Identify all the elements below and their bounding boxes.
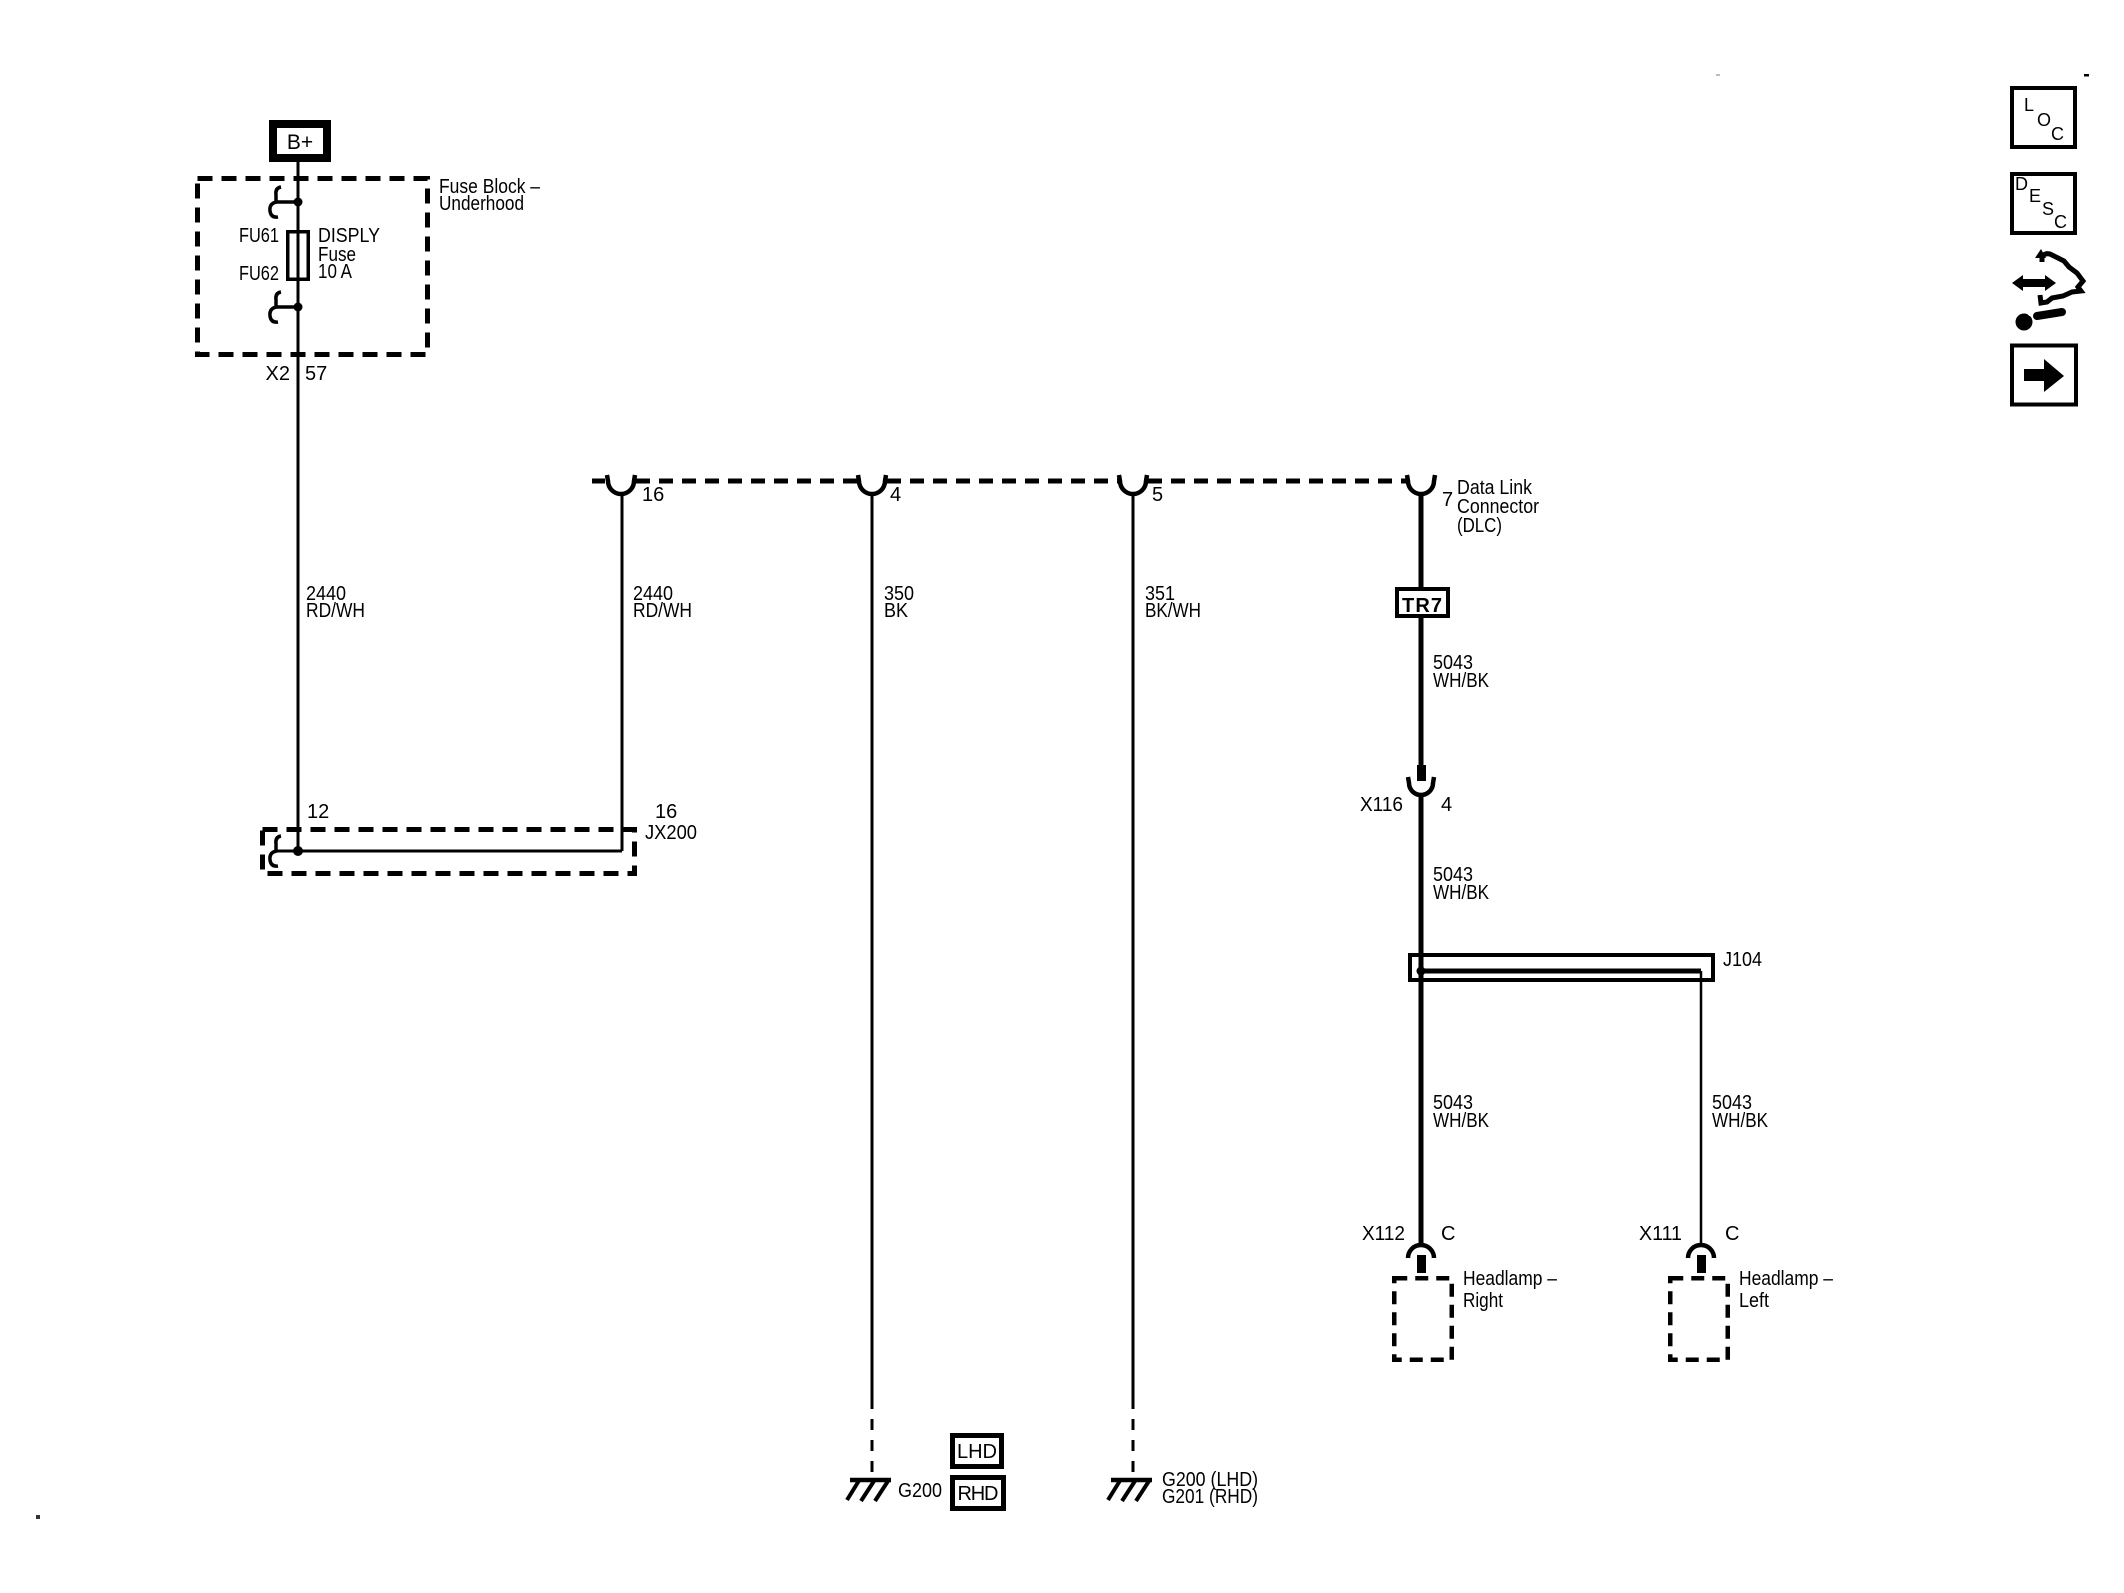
svg-text:4: 4: [890, 484, 901, 506]
svg-text:JX200: JX200: [645, 822, 697, 844]
svg-text:RHD: RHD: [958, 1483, 999, 1505]
svg-text:FU62: FU62: [239, 263, 279, 285]
svg-text:X111: X111: [1639, 1223, 1682, 1245]
svg-text:5: 5: [1152, 484, 1163, 506]
svg-text:X116: X116: [1360, 794, 1403, 816]
svg-text:C: C: [2054, 212, 2067, 232]
svg-text:D: D: [2015, 174, 2028, 194]
svg-text:Headlamp –: Headlamp –: [1739, 1268, 1834, 1290]
svg-text:C: C: [1725, 1223, 1739, 1245]
svg-text:E: E: [2029, 186, 2041, 206]
svg-text:Right: Right: [1463, 1290, 1503, 1312]
svg-text:16: 16: [655, 801, 677, 823]
svg-text:Underhood: Underhood: [439, 193, 524, 215]
svg-text:16: 16: [642, 484, 664, 506]
svg-text:10 A: 10 A: [318, 261, 353, 283]
svg-text:WH/BK: WH/BK: [1433, 882, 1490, 904]
svg-text:B+: B+: [287, 131, 313, 154]
svg-text:G201 (RHD): G201 (RHD): [1162, 1486, 1258, 1508]
svg-text:S: S: [2042, 199, 2054, 219]
svg-text:4: 4: [1441, 794, 1452, 816]
svg-text:FU61: FU61: [239, 225, 279, 247]
svg-text:BK/WH: BK/WH: [1145, 600, 1201, 622]
svg-text:G200: G200: [898, 1480, 942, 1502]
svg-text:WH/BK: WH/BK: [1712, 1110, 1769, 1132]
svg-text:(DLC): (DLC): [1457, 515, 1502, 537]
svg-text:57: 57: [305, 363, 327, 385]
svg-text:RD/WH: RD/WH: [633, 600, 692, 622]
svg-text:WH/BK: WH/BK: [1433, 670, 1490, 692]
svg-text:LHD: LHD: [957, 1441, 997, 1463]
svg-text:X2: X2: [266, 363, 290, 385]
svg-text:O: O: [2037, 110, 2051, 130]
svg-text:WH/BK: WH/BK: [1433, 1110, 1490, 1132]
svg-text:RD/WH: RD/WH: [306, 600, 365, 622]
svg-text:12: 12: [307, 801, 329, 823]
svg-text:J104: J104: [1723, 949, 1762, 971]
svg-text:Headlamp –: Headlamp –: [1463, 1268, 1558, 1290]
svg-text:Left: Left: [1739, 1290, 1769, 1312]
svg-text:X112: X112: [1362, 1223, 1405, 1245]
svg-text:C: C: [1441, 1223, 1455, 1245]
svg-text:7: 7: [1442, 489, 1453, 511]
svg-text:BK: BK: [884, 600, 909, 622]
svg-text:L: L: [2024, 95, 2034, 115]
svg-text:TR7: TR7: [1402, 595, 1442, 617]
svg-text:C: C: [2051, 124, 2064, 144]
